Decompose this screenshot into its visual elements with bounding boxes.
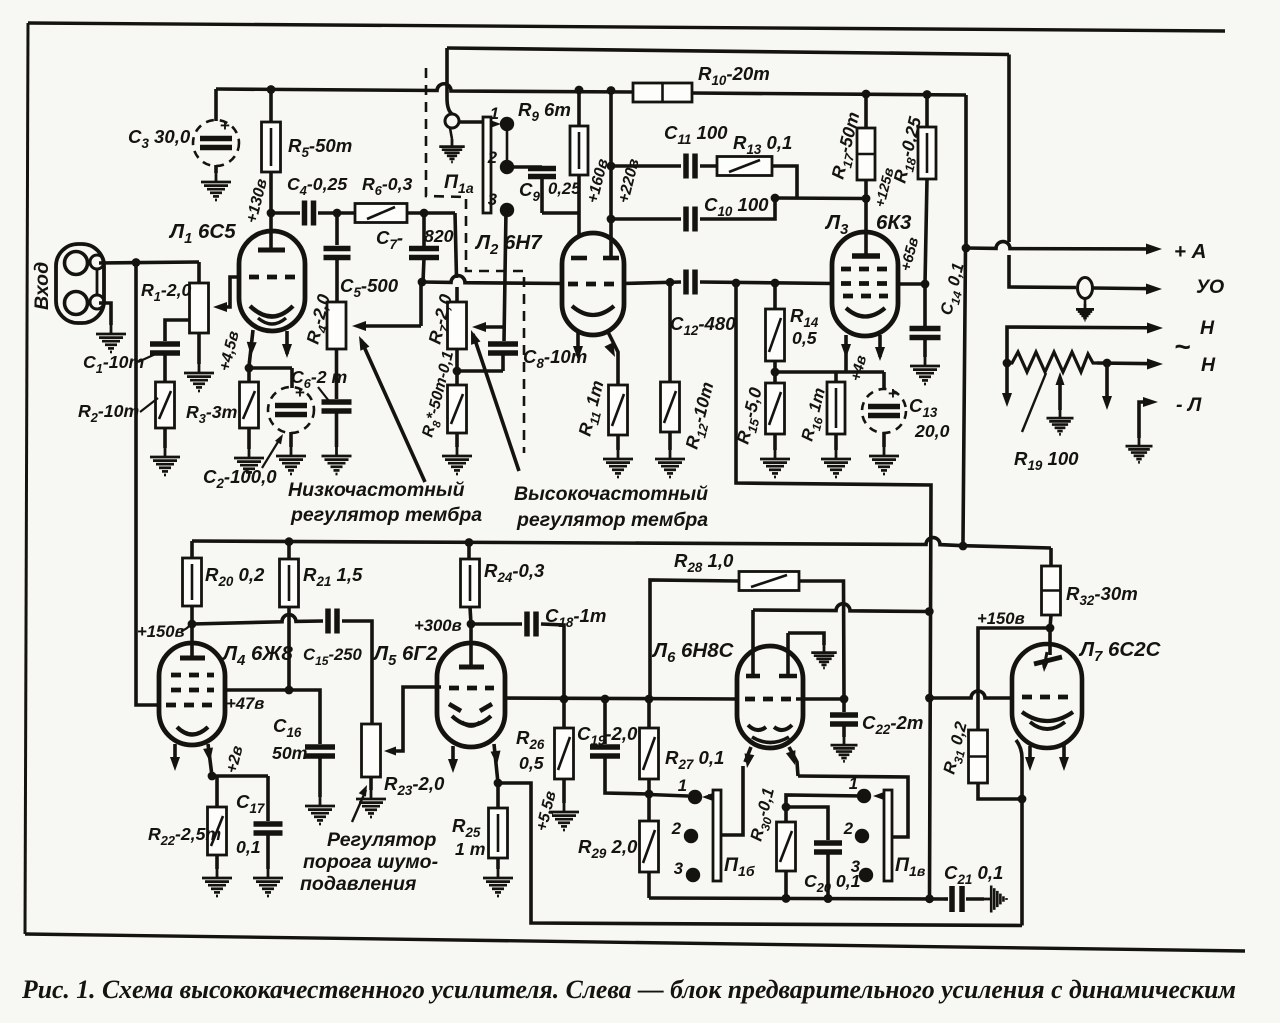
label R31-0,2 (939, 719, 974, 777)
svg-text:+ А: + А (1174, 240, 1206, 263)
ground R26 (549, 803, 579, 830)
svg-text:50т: 50т (272, 743, 307, 763)
label R32-30t (1066, 583, 1138, 608)
wire L4 anode line with hop and C15 (192, 615, 323, 624)
switch P1v contact 2 (855, 829, 869, 843)
tube L5 cathode lead (491, 744, 502, 783)
wire L6 right anode to ground stub (788, 633, 824, 645)
label R16 1t (797, 386, 832, 444)
wire +150 branch to R31 (978, 628, 1050, 730)
ground R11 (603, 450, 633, 477)
wire P1b common to L6 cathode (721, 766, 743, 835)
svg-text:Л1 6С5: Л1 6С5 (168, 220, 236, 247)
svg-text:0,25: 0,25 (548, 179, 581, 198)
wire R6 to R7 top (407, 213, 457, 302)
label R29 2,0 (578, 836, 638, 861)
label contact 1 (490, 104, 499, 123)
node feedback tap at L3 grid (732, 279, 741, 288)
resistor R11 (609, 385, 628, 450)
wire C18 to R26 node (541, 624, 564, 699)
label +150v right (977, 609, 1025, 628)
capacitor C5 (324, 213, 351, 302)
wire R18 to screen of L3 and C14 (897, 179, 929, 288)
wire lower B+ bus (192, 538, 1051, 548)
label R26 0,5 (516, 727, 545, 773)
node +A junction (962, 244, 971, 253)
label P1b contact 1 (678, 776, 687, 795)
ground C14 (910, 357, 940, 384)
svg-text:регулятор тембра: регулятор тембра (290, 504, 482, 526)
resistor R14 (766, 283, 785, 372)
resistor R21 (280, 542, 299, 690)
label C12-480 (670, 313, 736, 338)
node C22 junction (796, 695, 848, 704)
tube L4 cathode lead (203, 744, 215, 776)
label 6K3 (876, 211, 912, 234)
label R11 1t (574, 378, 611, 439)
wire cathode junction (249, 366, 292, 370)
svg-text:Л6 6Н8С: Л6 6Н8С (651, 639, 735, 666)
resistor R2 (156, 382, 175, 448)
svg-text:+: + (888, 384, 898, 403)
wire B+ down to +A node (964, 95, 968, 248)
wire R31 bottom to cathode (978, 783, 1022, 799)
capacitor C21 (944, 886, 984, 912)
capacitor C10 (607, 198, 775, 232)
switch P1b contact 2 (684, 829, 698, 843)
wire R32 to L7 anode (1050, 615, 1051, 655)
resistor R30 (777, 807, 796, 898)
wire UO arrow (1093, 284, 1162, 295)
tube L4 grids (166, 675, 219, 705)
capacitor C17 (254, 776, 283, 869)
label Vhod (31, 262, 53, 310)
label R20 0,2 (205, 564, 265, 589)
wire L4 cathode line (212, 774, 268, 778)
label C1-10t (83, 352, 160, 376)
wiper R19 to ground (1047, 372, 1074, 434)
label +5,5v (533, 789, 559, 833)
label P1b contact 3 (674, 859, 684, 878)
tube L7 cathode (1022, 712, 1073, 729)
label contact 3 (488, 190, 498, 209)
ground R2 (150, 448, 180, 475)
resistor R22 (208, 776, 227, 869)
wire +A output with hop (966, 242, 1162, 255)
label C20 0,1 (804, 871, 860, 895)
label C10 100 (704, 194, 769, 219)
resistor R15 (766, 372, 785, 450)
resistor R1 (volume pot) (190, 262, 209, 364)
ground R23 (356, 790, 386, 817)
svg-text:3: 3 (674, 859, 684, 878)
svg-text:Л7 6С2С: Л7 6С2С (1078, 638, 1162, 665)
wire L4 screen line (224, 690, 320, 744)
ground R22 (202, 869, 232, 896)
capacitor C15 (328, 609, 337, 634)
label C17 0,1 (236, 791, 265, 857)
svg-text:Л2 6Н7: Л2 6Н7 (474, 231, 543, 258)
tube L6 heater-cathode leads (742, 747, 800, 776)
label C6-2t (291, 367, 347, 401)
svg-text:~: ~ (1174, 331, 1190, 362)
tube L1 grid (249, 275, 296, 280)
svg-text:2: 2 (487, 148, 498, 167)
wire input shield to ground (99, 303, 111, 325)
wire C15 to R23 (342, 621, 372, 724)
switch P1b arm arrow (702, 793, 713, 801)
label P1b (724, 854, 755, 879)
label +65v (898, 236, 922, 273)
svg-text:0,1: 0,1 (236, 837, 261, 857)
node L5 anode junction (467, 620, 476, 629)
tube L5 heater lead (448, 746, 458, 773)
svg-text:2: 2 (843, 819, 854, 838)
node grid bus L2 left end (418, 278, 427, 287)
label R14 0,5 (790, 305, 819, 348)
svg-text:Низкочастотный: Низкочастотный (288, 479, 465, 501)
node screen R21 junction (285, 686, 294, 695)
label P1a (444, 171, 474, 196)
wire L2 right anode to bus (607, 86, 616, 258)
tube L6 grid (745, 697, 796, 702)
ground C22 (831, 737, 858, 761)
label +130v (243, 177, 271, 225)
capacitor C12 (686, 270, 695, 295)
wire L5 output line (504, 698, 738, 699)
ground R25 (483, 869, 513, 896)
label C4-0,25 (287, 174, 348, 198)
callout line treble tone control (466, 328, 519, 471)
tube L2 grid (568, 282, 619, 287)
wire L7 grid line with hop (930, 691, 1014, 698)
wire R30 node to C20 (786, 807, 828, 840)
ground C6 (322, 447, 352, 474)
caption figure 1 (21, 975, 1236, 1004)
label treble tone control text (514, 483, 708, 531)
node bottom rail junctions (782, 894, 934, 903)
ground -L (1126, 438, 1153, 462)
label +4,5v (216, 329, 242, 373)
tube L3 6K3 envelope (832, 232, 898, 336)
node L3 grid R14 tap (771, 279, 780, 288)
label R9 6t (518, 99, 571, 124)
wire B+ continues down to lower bus (963, 248, 966, 546)
resistor R29 (640, 794, 659, 898)
capacitor C14 (910, 284, 941, 357)
label P1v contact 3 (851, 857, 861, 876)
tube L7 grid (1022, 695, 1076, 700)
label C9 0,25 (519, 179, 581, 204)
ground C21 sideways (984, 886, 1007, 913)
svg-text:Л5 6Г2: Л5 6Г2 (372, 642, 438, 669)
label +300v (414, 616, 462, 635)
svg-text:+47в: +47в (226, 694, 264, 713)
label C18-1t (545, 605, 606, 630)
label R17-50t (827, 110, 867, 182)
wire long input-to-L4 line (136, 263, 161, 706)
node anode L1 junction (267, 209, 276, 218)
resistor R32 (1042, 548, 1061, 615)
svg-text:1: 1 (678, 776, 687, 795)
tube L1 anode (258, 213, 285, 250)
label R4-2,0 (302, 292, 338, 347)
resistor R27 (640, 699, 659, 779)
svg-text:Н: Н (1201, 354, 1216, 376)
resistor R28 (739, 572, 799, 591)
wire L3 cathode line (775, 370, 884, 374)
tube L4 6Zh8 envelope (159, 643, 225, 745)
tube L4 heater lead (170, 744, 180, 771)
ground C2 (276, 447, 306, 474)
svg-text:Регулятор: Регулятор (327, 829, 436, 851)
label bass tone control text (288, 479, 482, 526)
tube L6 anodes (746, 674, 797, 679)
label +4v (848, 354, 870, 383)
wire anode L1 to C4 (271, 211, 300, 215)
node R30 top junction (782, 803, 791, 812)
capacitor C20 (814, 843, 842, 898)
label L3 (824, 211, 849, 238)
wiper arrow R7 from C8 line (472, 322, 504, 332)
node R30 bottom (782, 894, 791, 903)
resistor R26 (555, 699, 574, 803)
switch P1b wafer (713, 790, 721, 881)
label R18-0,25 (889, 114, 929, 186)
input connector (56, 244, 104, 323)
tube L2 cathode lead to R11 (604, 332, 619, 385)
switch P1a moving arm arrow (490, 120, 501, 128)
tube L2 heater lead (573, 333, 583, 360)
ground L6 right anode (811, 645, 837, 668)
label R1-2,0 (141, 280, 192, 304)
tube L1 cathode (250, 306, 293, 324)
connector UO circle (1078, 278, 1093, 299)
switch P1v contact 3 (859, 868, 873, 882)
tube L5 grid (449, 686, 494, 691)
resistor R23 (noise gate pot) (362, 724, 381, 790)
svg-text:+300в: +300в (414, 616, 462, 635)
wire L6 anode output line with hop (753, 604, 929, 613)
callout line R19 (1022, 373, 1046, 432)
svg-text:подавления: подавления (300, 873, 417, 895)
svg-text:0,5: 0,5 (519, 753, 545, 773)
ground C17 (253, 869, 283, 896)
ground C16 (305, 797, 335, 824)
resistor R7 (treble tone pot) (448, 302, 467, 349)
wire grid-cap feed (447, 48, 452, 114)
node L4 anode junction (188, 620, 197, 629)
svg-text:3: 3 (488, 190, 498, 209)
wire P1v contact1 to R30 (786, 795, 864, 807)
ground R1 (184, 364, 214, 391)
label N bottom (1201, 354, 1216, 376)
label R8*-50t-0,1 (419, 349, 461, 439)
svg-text:6К3: 6К3 (876, 211, 912, 234)
capacitor C13 electrolytic (862, 372, 906, 447)
wire L2 grid to C12 (622, 282, 681, 284)
label +125v (871, 166, 896, 209)
wire C4 to R6 (318, 211, 355, 215)
label C5-500 (340, 275, 399, 300)
switch P1b contact 1 (688, 790, 702, 804)
tube L4 anode (180, 624, 205, 658)
resistor R3 (240, 368, 259, 449)
label C13 20,0 (909, 395, 950, 441)
tube L5 diode plates (449, 704, 492, 711)
wire UO line (1009, 55, 1076, 288)
resistor R24 (461, 543, 480, 625)
wire C12 to L3 grid (700, 282, 833, 284)
label P1v (895, 854, 926, 879)
svg-text:регулятор тембра: регулятор тембра (516, 509, 708, 531)
tube L1 6C5 envelope (239, 231, 305, 331)
label -L (1176, 394, 1202, 416)
tube L6 6N8S envelope (737, 646, 803, 748)
wire heater line bottom arrow (1097, 359, 1163, 370)
svg-text:Высокочастотный: Высокочастотный (514, 483, 708, 505)
node C19 tap (601, 695, 610, 704)
label L7 6S2S (1078, 638, 1162, 665)
switch P1v arm arrow (873, 792, 884, 800)
wire R7 bottom (455, 349, 459, 371)
tube L3 grids (841, 269, 890, 296)
node cathode line junction (771, 368, 780, 377)
label C2-100,0 (203, 432, 286, 491)
resistor R19 hum balance rheostat (1007, 352, 1097, 372)
ground input (96, 325, 126, 352)
capacitor C7 (409, 213, 439, 282)
wire screen line to L3 anode stem (771, 194, 871, 203)
node R26 tap (560, 695, 569, 704)
ground grid cap (439, 128, 465, 162)
wire L5 cathode to bottom rail (498, 783, 1022, 926)
tube L3 anode (852, 199, 880, 257)
node anode line to vertical (925, 607, 934, 616)
svg-text:20,0: 20,0 (914, 421, 950, 441)
wire global feedback line (736, 283, 931, 898)
tube L2 6N7 envelope (562, 233, 624, 335)
wiper arrow R1 from grid of L1 (213, 277, 240, 312)
label tilde (1174, 331, 1190, 362)
label L2 6N7 (474, 231, 543, 258)
label R3-3t (186, 402, 237, 426)
switch P1a contact 1 (500, 117, 514, 131)
node input feedback branch (132, 258, 141, 267)
wire heater line top (1007, 323, 1163, 364)
connector grid cap circle (445, 114, 459, 128)
switch P1b contact 3 (686, 868, 700, 882)
ground R8 (442, 447, 472, 474)
label C14-0,1 (936, 261, 971, 318)
label L1 6C5 (168, 220, 236, 247)
label R5-50t (288, 135, 352, 160)
label contact 2 (487, 148, 498, 167)
node L7 grid junction (925, 694, 934, 703)
tube L4 cathode (177, 727, 208, 735)
wire R27 bottom (647, 779, 651, 794)
wire R19 right down arrow (1102, 363, 1112, 410)
capacitor C19 (590, 699, 649, 794)
switch P1v wafer (884, 790, 892, 881)
label R22-2,5t (148, 824, 221, 848)
wire -L output (1139, 397, 1158, 438)
node L6 grid tap (645, 695, 654, 704)
resistor R25 (489, 783, 508, 869)
svg-text:1: 1 (490, 104, 499, 123)
label C19-2,0 (577, 723, 638, 748)
svg-text:- Л: - Л (1176, 394, 1202, 416)
node L1 cathode junction (245, 364, 254, 373)
label C21 0,1 (944, 862, 1003, 887)
node R5 top junction (267, 85, 276, 94)
resistor R13 (700, 157, 797, 199)
resistor R6 (355, 204, 407, 223)
ground R15 (760, 450, 790, 477)
label C22-2t (862, 712, 923, 737)
capacitor C9 (528, 169, 579, 214)
wiper arrow R23 from L5 grid (384, 687, 441, 756)
resistor R16 (827, 372, 845, 450)
callout line noise gate (352, 783, 371, 822)
capacitor C8 (457, 210, 518, 371)
tube L5 anode (459, 624, 484, 667)
svg-text:+: + (220, 116, 230, 135)
node heater right junction (1103, 359, 1112, 368)
resistor R10 (633, 83, 692, 102)
wire input hot lead (99, 262, 199, 263)
label +160v (584, 157, 612, 205)
node bus B+ entry (959, 542, 968, 551)
svg-text:+: + (295, 383, 305, 402)
capacitor C4 (305, 201, 314, 226)
ground R16 (821, 450, 851, 477)
tube L2 cathode (572, 306, 614, 315)
label R7-2,0 (424, 292, 460, 347)
node L5 cathode junction (494, 779, 503, 788)
wiper arrow R4 (352, 282, 421, 331)
node bus R21 tap (285, 537, 294, 546)
label R10 20t (698, 63, 770, 88)
svg-text:0,5: 0,5 (792, 328, 818, 348)
wire main B+ bus (top) (216, 84, 966, 95)
tube L7 heater leads (1025, 743, 1069, 771)
callout line bass tone control (354, 334, 425, 482)
tube L3 cathode lead (841, 335, 851, 372)
ground R12 (655, 450, 685, 477)
ground C3 (201, 173, 231, 200)
svg-text:1 т: 1 т (455, 839, 485, 859)
label N top (1200, 317, 1215, 339)
wire heater left down arrow (1002, 363, 1012, 407)
resistor R20 (183, 541, 202, 624)
switch P1a contact 3 (500, 203, 514, 217)
label R21 1,5 (303, 564, 363, 589)
label +A (1174, 240, 1206, 263)
tube L3 heater lead (875, 335, 885, 361)
svg-text:1: 1 (849, 774, 858, 793)
node L4 cathode junction (208, 772, 217, 781)
wire grid bus to L2 (422, 276, 563, 284)
resistor R8 (448, 371, 467, 447)
wire R28 right to C22 (799, 581, 844, 699)
label R19 100 (1014, 448, 1079, 473)
wire R1 tap to C1 (165, 320, 190, 341)
svg-text:+150в: +150в (977, 609, 1025, 628)
label L6 6N8S (651, 639, 735, 666)
node heater left junction (1003, 359, 1012, 368)
label R24-0,3 (484, 560, 545, 585)
